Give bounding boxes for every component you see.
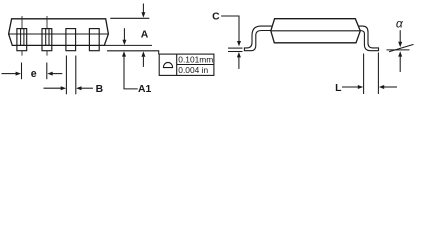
dimension C leader and down arrow <box>221 16 239 42</box>
svg-text:α: α <box>396 17 404 31</box>
dimension C up arrow <box>238 57 240 69</box>
alpha slant reference line <box>389 44 414 51</box>
dimension A down arrow <box>142 4 144 13</box>
dimension A top extension line <box>110 17 149 19</box>
svg-text:A1: A1 <box>138 84 152 95</box>
dimension e extension lines <box>22 63 47 80</box>
dimension A1 body-bottom extension line <box>104 44 152 46</box>
package body side view <box>271 19 361 43</box>
dimension L arrows and line <box>342 86 397 88</box>
dimension B extension lines <box>66 56 75 95</box>
pin 2 centerline <box>46 16 48 56</box>
dimension C ticks <box>228 48 243 51</box>
pin 1 centerline <box>21 16 23 56</box>
dimension e arrows and line <box>2 73 63 75</box>
pin 1 <box>17 29 27 51</box>
svg-text:A: A <box>141 29 149 40</box>
pin 2 <box>42 29 52 51</box>
svg-text:0.004 in: 0.004 in <box>178 65 208 75</box>
dimension A up arrow <box>142 57 144 67</box>
dimension A1 down arrow <box>123 28 125 40</box>
svg-text:C: C <box>212 12 220 23</box>
package body front view <box>9 19 109 46</box>
svg-text:B: B <box>96 84 104 95</box>
dimension B arrows and line <box>44 87 94 89</box>
dimension alpha down arrow <box>399 30 401 43</box>
svg-text:e: e <box>31 68 37 80</box>
dimension L extension lines <box>364 53 379 95</box>
dimension A1 up arrow and leader <box>124 56 138 89</box>
right gull-wing lead <box>358 26 379 51</box>
pin 4 <box>89 29 99 51</box>
dimension alpha up arrow <box>399 56 401 72</box>
svg-text:0.101mm: 0.101mm <box>178 55 213 65</box>
feature control frame box <box>159 54 214 75</box>
profile-of-surface symbol <box>163 62 172 67</box>
left gull-wing lead <box>244 26 272 51</box>
pin 3 <box>66 29 76 51</box>
alpha horizontal reference line <box>387 49 410 51</box>
dimension A bottom extension line with elbow to frame <box>107 51 159 54</box>
svg-text:L: L <box>335 83 342 94</box>
